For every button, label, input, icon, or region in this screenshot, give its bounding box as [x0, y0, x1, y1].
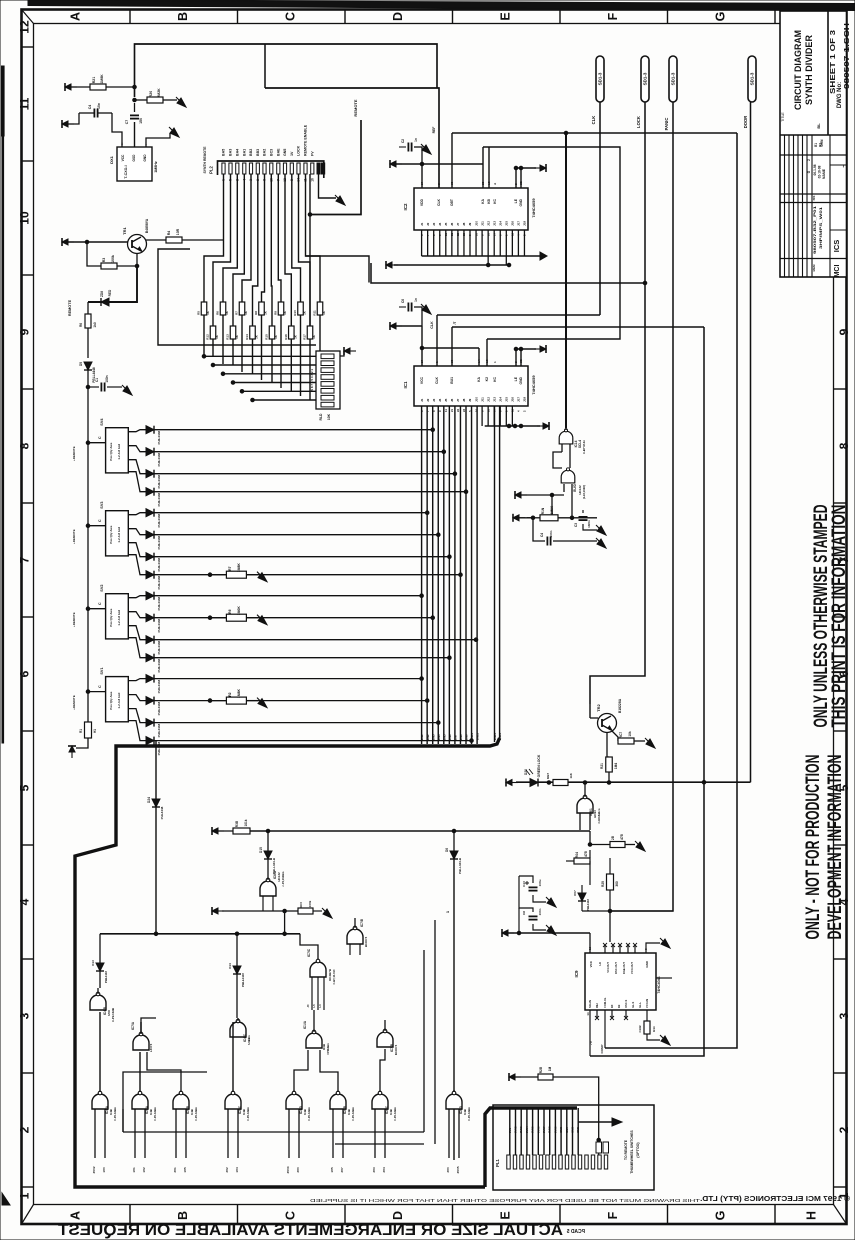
svg-text:J1: J1: [420, 398, 424, 402]
wire D5 down to switches: [87, 370, 89, 443]
svg-text:J16: J16: [511, 397, 515, 402]
svg-text:IC1: IC1: [403, 381, 408, 389]
power +5v IC1: [390, 322, 402, 330]
LED D8 RED remote: [101, 298, 109, 306]
svg-text:R10: R10: [293, 310, 297, 316]
svg-text:R20: R20: [149, 91, 153, 97]
svg-text:SD1-3: SD1-3: [750, 72, 755, 85]
scan artifact: top black bar: [28, 0, 855, 11]
svg-text:C4: C4: [88, 105, 92, 110]
dip element 2: [321, 361, 334, 366]
svg-text:R7: R7: [235, 311, 239, 315]
node TR1 emitter: [135, 264, 139, 268]
svg-text:C3: C3: [574, 523, 578, 527]
svg-text:3: 3: [837, 1012, 851, 1019]
svg-text:1M8K: 1M8K: [550, 505, 554, 514]
ground C8: [546, 925, 556, 935]
svg-text:BA2: BA2: [263, 149, 267, 156]
svg-text:980507-B32_P01: 980507-B32_P01: [813, 206, 817, 254]
svg-text:DN11: DN11: [476, 733, 480, 740]
wire IC5/B out: [147, 1052, 181, 1092]
svg-text:U4B: U4B: [463, 1109, 467, 1115]
ground TR2: [645, 738, 655, 748]
svg-text:47B: 47B: [584, 850, 588, 857]
wire IC6/C out: [380, 1049, 385, 1092]
power +5v LED: [506, 779, 518, 787]
svg-text:3V2: 3V2: [225, 1167, 229, 1173]
diode SW3 row2: [146, 531, 154, 539]
svg-text:GND: GND: [571, 1127, 575, 1133]
node remote bus: [86, 690, 90, 694]
svg-text:TO REMOTE: TO REMOTE: [624, 1139, 628, 1160]
svg-text:PHL4448: PHL4448: [586, 899, 590, 911]
resistor R4: [166, 237, 182, 243]
svg-text:R16: R16: [284, 334, 288, 340]
svg-text:2B: 2B: [611, 835, 615, 840]
svg-text:R5: R5: [197, 311, 201, 315]
svg-text:VCC: VCC: [420, 376, 424, 384]
wire PL1 8: [549, 1108, 551, 1155]
svg-text:1k8: 1k8: [569, 773, 573, 778]
heavy PL1 feed: [485, 1108, 577, 1187]
ground R6: [257, 615, 267, 625]
svg-text:J11: J11: [480, 221, 484, 226]
svg-text:DRN: DRN: [820, 139, 824, 147]
resistor RB13: [230, 326, 236, 339]
svg-text:BAE: BAE: [276, 148, 280, 156]
svg-text:DN6: DN6: [448, 734, 452, 740]
svg-text:1k0: 1k0: [93, 322, 97, 328]
wire IC5/B in1: [175, 1109, 177, 1158]
svg-text:KC: KC: [493, 198, 497, 203]
svg-text:C: C: [98, 685, 102, 688]
connector PL1 box: [493, 1105, 654, 1190]
title block horizontal divider: [780, 134, 847, 136]
svg-text:B4858YA: B4858YA: [145, 218, 149, 233]
svg-text:J9: J9: [468, 222, 472, 226]
routing rail C: [123, 1072, 207, 1132]
capacitor C4: [94, 109, 97, 118]
power left R1N: [513, 514, 525, 522]
svg-text:PHLL4448: PHLL4448: [241, 973, 245, 987]
svg-text:D13: D13: [91, 960, 95, 966]
svg-text:360: 360: [615, 881, 619, 887]
wire sw row: [128, 679, 146, 681]
transistor TR2: [598, 714, 617, 733]
svg-text:C-P2.4dBm: C-P2.4dBm: [393, 1106, 397, 1121]
svg-text:COM-OL: COM-OL: [603, 997, 607, 1008]
svg-text:BU/D: BU/D: [573, 483, 577, 491]
svg-text:PHIL4448: PHIL4448: [157, 619, 161, 633]
wire IC2 gnd rail: [422, 255, 540, 257]
wire PL1 2: [515, 1108, 517, 1155]
node rung: [420, 677, 424, 681]
wire KA-K2 loop: [483, 147, 620, 339]
wire sw row: [128, 460, 146, 474]
node dip row: [221, 372, 225, 376]
ground DX1: [169, 127, 179, 137]
svg-text:A: A: [69, 12, 83, 21]
svg-text:21: 21: [450, 408, 454, 412]
diode D6: [450, 851, 458, 859]
resistor R20: [147, 97, 163, 103]
wire route right mid: [590, 327, 704, 1056]
svg-text:PHLL444-B: PHLL444-B: [458, 857, 462, 874]
svg-text:C: C: [284, 12, 298, 21]
svg-text:PHIL4448: PHIL4448: [157, 576, 161, 590]
svg-text:IC9: IC9: [574, 970, 579, 978]
dip +5v: [344, 347, 356, 355]
svg-text:GND: GND: [559, 1127, 563, 1133]
node dip row: [231, 381, 235, 385]
svg-text:DN5: DN5: [442, 734, 446, 740]
rail y934: [100, 933, 300, 935]
wire dip row: [253, 399, 317, 401]
svg-text:R2: R2: [228, 692, 232, 696]
svg-text:C4: C4: [540, 533, 544, 537]
wire remote stub: [88, 691, 106, 693]
resistor R24: [574, 858, 590, 864]
diode SW2 row2: [146, 614, 154, 622]
diode SW1 row3: [146, 719, 154, 727]
PL1 pin 9: [559, 1155, 562, 1169]
svg-text:J1: J1: [420, 222, 424, 226]
svg-text:LOCK: LOCK: [636, 116, 641, 128]
capacitor C2: [408, 143, 411, 152]
svg-text:J10: J10: [474, 397, 478, 402]
gate IC6/B: [330, 1091, 346, 1109]
wire 1 line: [453, 859, 455, 1160]
svg-text:RC0: RC0: [299, 902, 303, 908]
IC1 LE/GND 5v: [516, 348, 536, 350]
resistor RA8: [259, 302, 265, 315]
svg-text:TR1: TR1: [122, 226, 127, 234]
svg-text:3: 3: [18, 1012, 32, 1019]
svg-text:PHL4448: PHL4448: [160, 806, 164, 819]
svg-text:U4B: U4B: [303, 1109, 307, 1115]
svg-text:R3B: R3B: [235, 820, 239, 827]
svg-text:IC7/B: IC7/B: [360, 918, 364, 927]
svg-text:C-MC/Hdco: C-MC/Hdco: [597, 808, 601, 823]
svg-text:PHIL4448: PHIL4448: [157, 641, 161, 655]
svg-text:ICS: ICS: [832, 240, 841, 253]
node rung: [448, 656, 452, 660]
svg-text:E: E: [499, 12, 513, 20]
svg-text:1n: 1n: [414, 138, 418, 142]
IC7/C in1: [311, 977, 313, 1010]
svg-text:3V08: 3V08: [548, 1126, 552, 1133]
wire long route y283: [371, 263, 645, 283]
svg-text:J2: J2: [426, 222, 430, 226]
resistor RB16: [289, 326, 295, 339]
gate IC5/A: [559, 429, 573, 444]
svg-text:J3: J3: [432, 222, 436, 226]
svg-text:R15: R15: [265, 334, 269, 340]
svg-text:K2: K2: [485, 377, 489, 381]
wire BU1 /T: [452, 326, 704, 328]
svg-text:HC4073: HC4073: [364, 936, 368, 947]
svg-text:1-2-4-8 bcd: 1-2-4-8 bcd: [117, 527, 121, 543]
node rung: [459, 573, 463, 577]
svg-text:1V5: 1V5: [330, 1167, 334, 1173]
svg-text:MB7: MB7: [546, 773, 550, 780]
svg-text:GND: GND: [576, 1127, 580, 1133]
svg-text:D5: D5: [79, 362, 83, 366]
gate IC6/D: [446, 1091, 462, 1109]
svg-text:PHIL4448: PHIL4448: [157, 536, 161, 550]
capacitor C3: [579, 517, 588, 520]
resistor RB14: [250, 326, 256, 339]
svg-text:BA5: BA5: [222, 149, 226, 156]
gate IC4/C: [230, 1019, 246, 1037]
wire DOOR tp: [750, 102, 752, 782]
node rung: [474, 638, 478, 642]
svg-text:1M8K: 1M8K: [237, 563, 241, 573]
svg-text:PHIL4448: PHIL4448: [157, 680, 161, 694]
svg-text:Pos Qty Aws: Pos Qty Aws: [109, 608, 113, 627]
gate IC7/C: [310, 959, 326, 977]
svg-text:100k: 100k: [308, 900, 312, 907]
svg-text:74HC4059: 74HC4059: [531, 375, 536, 395]
svg-text:1-2-4-8 bcd: 1-2-4-8 bcd: [117, 693, 121, 709]
resistor R21: [90, 84, 106, 90]
svg-text:GN0: GN0: [565, 1127, 569, 1133]
node rung: [464, 490, 468, 494]
bus wire DN15: [499, 406, 501, 738]
diode SW4 row3: [146, 470, 154, 478]
svg-text:PHIL4448: PHIL4448: [157, 453, 161, 467]
svg-text:1M: 1M: [548, 1066, 552, 1071]
resistor RA7: [239, 302, 245, 315]
wire TR1 second route: [158, 249, 316, 345]
svg-text:R8: R8: [254, 311, 258, 315]
wire node down: [284, 911, 286, 934]
node D15: [266, 829, 270, 833]
node rail 704: [702, 780, 706, 784]
wire remote stub: [88, 525, 106, 527]
svg-text:SV1: SV1: [100, 667, 104, 674]
node TR1 base feed: [85, 240, 89, 244]
svg-text:1n: 1n: [414, 298, 418, 302]
PCAD 5 (mirrored): [566, 1229, 585, 1235]
svg-text:E: E: [499, 1211, 513, 1219]
frame corner diagonals: [22, 10, 34, 24]
svg-text:LE: LE: [514, 376, 518, 381]
wire rung SW3 r1: [154, 512, 427, 514]
svg-text:R1: R1: [79, 729, 83, 733]
svg-text:KC: KC: [493, 376, 497, 381]
wire branch v265: [264, 44, 266, 88]
diode SW4 row4: [146, 488, 154, 496]
wire rung SW4 r3: [154, 473, 455, 475]
wire rung SW2 r1: [154, 595, 422, 597]
node PL1 drop: [597, 1138, 601, 1142]
resistor R6: [226, 614, 246, 621]
wire PL1 9: [554, 1108, 556, 1155]
capacitor C6: [408, 303, 411, 312]
svg-text:PHIL4448: PHIL4448: [157, 431, 161, 445]
svg-text:REMOTE: REMOTE: [68, 299, 72, 316]
svg-text:THIS DRAWING MUST NOT BE USED: THIS DRAWING MUST NOT BE USED FOR ANY PU…: [310, 1198, 700, 1203]
IC9 top pins: [589, 933, 591, 953]
svg-text:(L#2,1026): (L#2,1026): [582, 485, 586, 499]
svg-text:GND: GND: [519, 376, 523, 384]
ground R2: [257, 698, 267, 708]
svg-text:PHIL4448: PHIL4448: [157, 724, 161, 738]
svg-text:B18228A: B18228A: [618, 698, 622, 713]
node C1 tap: [86, 385, 90, 389]
node remote bus: [86, 441, 90, 445]
resistor RB12: [210, 326, 216, 339]
dip element 8: [321, 402, 334, 407]
wire rung SW1 r2: [154, 700, 427, 702]
svg-text:100n: 100n: [538, 908, 542, 915]
svg-text:C2: C2: [401, 139, 405, 143]
svg-text:16: 16: [310, 178, 314, 182]
resistor RB17: [307, 326, 313, 339]
svg-text:J15: J15: [505, 397, 509, 402]
wire CLK tp: [599, 102, 601, 315]
node OBT branch: [564, 131, 568, 135]
svg-text:ONLY - NOT FOR PRODUCTION: ONLY - NOT FOR PRODUCTION: [803, 755, 824, 940]
svg-text:100u: 100u: [538, 879, 542, 886]
svg-text:C: C: [98, 602, 102, 605]
power +5v rail831: [212, 827, 224, 835]
power y911: [212, 907, 224, 915]
IC7/C in3: [323, 977, 325, 1010]
svg-text:IC7/C: IC7/C: [307, 948, 311, 957]
svg-text:980507-1.SCH: 980507-1.SCH: [844, 23, 851, 89]
wire remote stub: [88, 608, 106, 610]
svg-text:J15: J15: [505, 221, 509, 226]
node rung: [442, 450, 446, 454]
node dip row: [211, 363, 215, 367]
capacitor C7: [130, 115, 139, 118]
wire lock branch: [306, 256, 370, 283]
svg-text:BB2: BB2: [249, 149, 253, 156]
ground IC9: [660, 938, 670, 948]
svg-text:INH: INH: [595, 1003, 599, 1008]
IC2 LE/GND to +5v: [516, 167, 536, 169]
ground R7: [257, 572, 267, 582]
wire sw row: [128, 513, 146, 515]
wire IC6/D in1: [448, 1109, 450, 1158]
wire PL1 4: [526, 1108, 528, 1155]
connector PL2 outline: [218, 161, 324, 178]
PL1 pin 6: [539, 1155, 542, 1169]
svg-text:R0: R0: [610, 1004, 614, 1008]
svg-text:3V05: 3V05: [456, 1166, 460, 1173]
wire IC4/D out: [294, 1050, 308, 1092]
svg-text:3V02: 3V02: [92, 1166, 96, 1173]
svg-text:+REMOTE: +REMOTE: [72, 612, 76, 627]
wire remote bus to switch rows: [87, 443, 89, 697]
svg-text:D: D: [391, 1211, 405, 1220]
svg-text:C-P2.10dB: C-P2.10dB: [111, 1008, 115, 1022]
svg-text:C1: C1: [95, 378, 99, 382]
wire LOCK tp: [590, 102, 645, 704]
svg-text:J7: J7: [456, 398, 460, 402]
diode D15: [264, 851, 272, 859]
svg-text:R1N: R1N: [541, 507, 545, 514]
wire sw row: [128, 446, 146, 452]
PL1 pin 12: [578, 1155, 581, 1169]
diode SW3 row3: [146, 553, 154, 561]
svg-text:Pos Qty Aws: Pos Qty Aws: [109, 525, 113, 544]
svg-text:2: 2: [807, 159, 811, 161]
svg-text:06-1-98: 06-1-98: [813, 164, 817, 175]
node remote join: [308, 213, 312, 217]
gate IC8/A: [260, 878, 276, 896]
svg-text:74HC4046: 74HC4046: [657, 976, 661, 993]
wire IC5/C in1: [227, 1109, 229, 1158]
wire IC4/C out: [237, 1018, 239, 1021]
test point CLK: [596, 56, 604, 102]
svg-text:PHL4448: PHL4448: [104, 971, 108, 983]
svg-text:RC7: RC7: [619, 732, 623, 739]
diode SW3 row1: [146, 509, 154, 517]
svg-text:3V09: 3V09: [553, 1126, 557, 1133]
wire remote stub: [88, 442, 106, 444]
svg-text:3V0: 3V0: [446, 1167, 450, 1173]
node dip row: [251, 398, 255, 402]
resistor RC0: [298, 908, 313, 914]
wire rung SW3 r4: [154, 574, 461, 576]
IC2 top pin stubs: [421, 164, 423, 188]
wire rung SW3 r2: [154, 534, 438, 536]
node rung: [420, 594, 424, 598]
wire pin14 down: [309, 174, 311, 326]
svg-text:VDD: VDD: [420, 198, 424, 206]
svg-text:NAME: NAME: [822, 168, 826, 179]
gate IC7/A: [133, 1032, 149, 1050]
svg-text:B1: B1: [814, 143, 818, 147]
svg-text:100n: 100n: [105, 375, 109, 382]
wire sw row: [128, 543, 146, 557]
gate IC5/C: [225, 1091, 241, 1109]
wire IC5/C out: [232, 1022, 234, 1092]
bus wire DN7: [454, 406, 456, 744]
svg-text:R9: R9: [274, 311, 278, 315]
svg-text:LOCK: LOCK: [297, 145, 301, 156]
svg-text:100n: 100n: [549, 530, 553, 537]
svg-text:3V06: 3V06: [536, 1126, 540, 1133]
gate IC7/B: [377, 1029, 393, 1047]
svg-text:BC3: BC3: [269, 149, 273, 156]
svg-text:SD1-3: SD1-3: [598, 72, 603, 85]
svg-text:PHIL4448: PHIL4448: [157, 702, 161, 716]
svg-text:3V03: 3V03: [519, 1126, 523, 1133]
diode SW1 row2: [146, 697, 154, 705]
switch SW3: [106, 511, 129, 556]
svg-text:U4B: U4B: [190, 1109, 194, 1115]
svg-text:R3: R3: [102, 258, 106, 263]
node R29 bottom: [608, 909, 612, 913]
node rung: [425, 511, 429, 515]
svg-text:3V0: 3V0: [296, 1167, 300, 1173]
svg-text:12: 12: [18, 20, 32, 34]
svg-text:R2B: R2B: [539, 1066, 543, 1073]
wire IC6/B in1: [332, 1109, 334, 1158]
svg-text:GND: GND: [645, 960, 649, 968]
svg-text:8: 8: [18, 442, 32, 449]
PL1 arrow: [578, 1121, 612, 1123]
resistor R29: [607, 874, 614, 890]
diode SW4 row1: [146, 426, 154, 434]
routing rail B: [335, 1143, 424, 1145]
wire gate out up: [565, 405, 567, 430]
wire IC4/D in1: [288, 1109, 290, 1158]
